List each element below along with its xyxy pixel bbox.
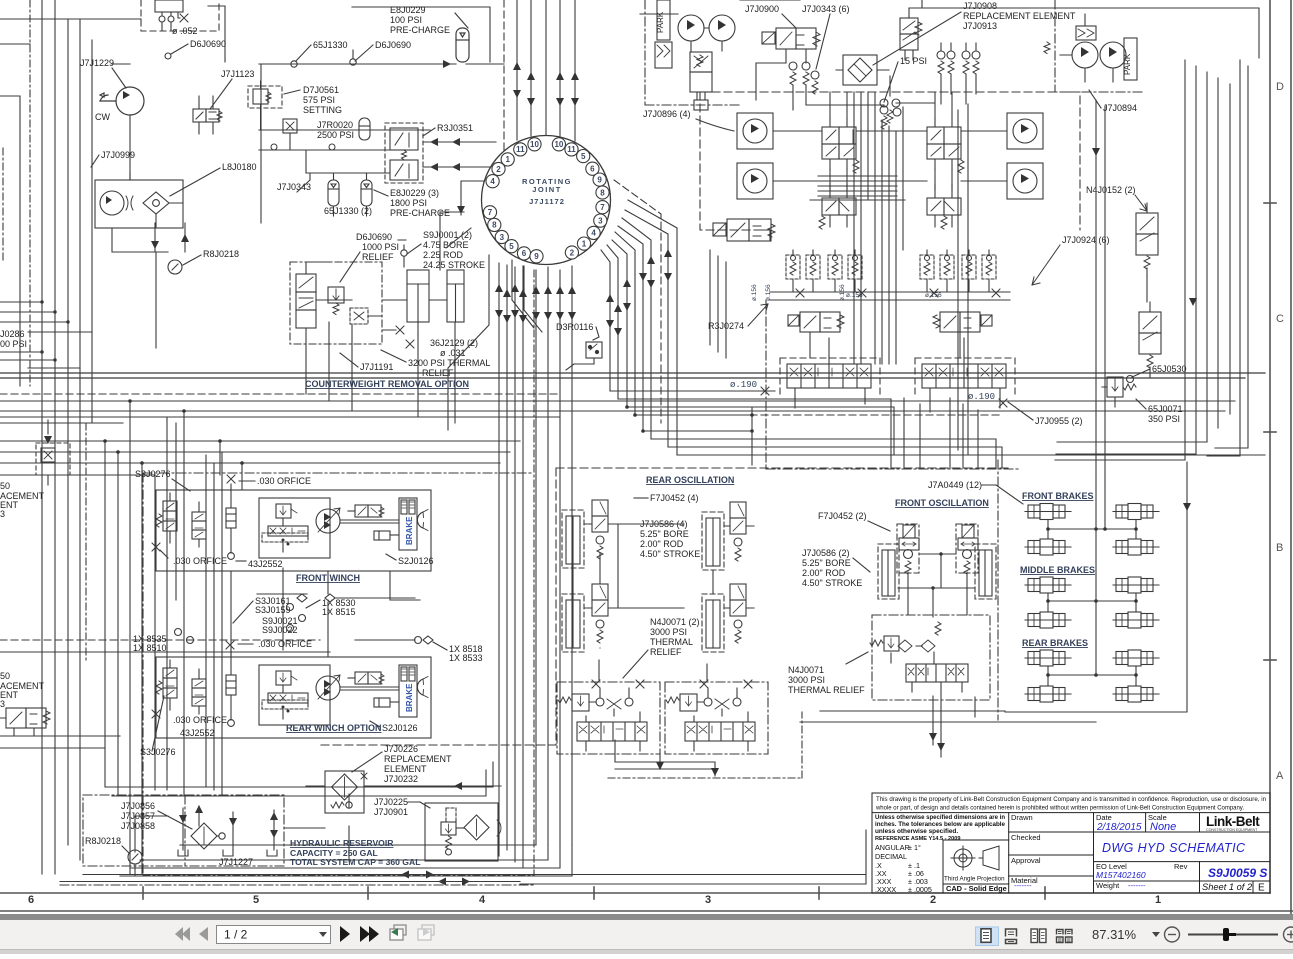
left edge solenoid valve low [0, 708, 50, 736]
svg-text:FRONT OSCILLATION: FRONT OSCILLATION [895, 498, 989, 508]
svg-text:S3J0159: S3J0159 [255, 605, 291, 615]
svg-text:1X 8515: 1X 8515 [322, 607, 356, 617]
front brake bus wire [1048, 520, 1136, 540]
svg-text:2.25 ROD: 2.25 ROD [423, 250, 464, 260]
wire bundle below joint going down [512, 260, 572, 845]
rotating joint U-J7J1172 [482, 136, 611, 265]
label diam .190 right [968, 392, 995, 402]
label J7A0449 (12) [928, 480, 982, 490]
svg-text:J7A0449 (12): J7A0449 (12) [928, 480, 982, 490]
65J0071 component [1102, 376, 1136, 408]
svg-text:CONSTRUCTION EQUIPMENT: CONSTRUCTION EQUIPMENT [1206, 828, 1258, 832]
sheet frame bottom border [0, 887, 1293, 911]
svg-text:10: 10 [530, 140, 539, 149]
svg-text:± .0005: ± .0005 [908, 885, 932, 894]
svg-text:M157402160: M157402160 [1096, 870, 1146, 880]
pdf viewer toolbar [0, 914, 1293, 954]
rear brake axle [1113, 686, 1159, 702]
svg-text:.030 ORFICE: .030 ORFICE [257, 476, 311, 486]
valve bank right [922, 356, 1006, 398]
svg-text:7: 7 [488, 208, 493, 217]
svg-text:6: 6 [590, 165, 595, 174]
valve bank left [787, 356, 871, 398]
fittings symbols [175, 594, 448, 650]
zone letters [1276, 81, 1284, 782]
wire bottom long runs to reservoir [120, 845, 572, 876]
svg-text:50: 50 [0, 481, 10, 491]
prev page button [199, 927, 208, 941]
label J7J0955 (2) [1035, 416, 1083, 426]
svg-text:E8J0229: E8J0229 [390, 5, 426, 15]
svg-text:2/18/2015: 2/18/2015 [1096, 822, 1142, 833]
svg-text:J7J0913: J7J0913 [963, 21, 997, 31]
svg-text:J7J0858: J7J0858 [121, 821, 155, 831]
svg-text:.030 ORFICE: .030 ORFICE [173, 715, 227, 725]
heading FRONT WINCH [296, 573, 360, 583]
svg-text:J7J0894: J7J0894 [1103, 103, 1137, 113]
valve .052 with orifice [155, 0, 188, 30]
label 65J1330 (2) [324, 206, 372, 216]
motor circles right pair [1007, 113, 1043, 149]
check pair right [937, 43, 980, 104]
svg-text:J7J0900: J7J0900 [745, 4, 779, 14]
Link-Belt logo [1201, 814, 1270, 832]
svg-text:CAD - Solid Edge: CAD - Solid Edge [946, 884, 1007, 893]
svg-text:D6J0690: D6J0690 [375, 40, 411, 50]
enclosure right dash-dot [1055, 0, 1145, 92]
svg-text:J7J1123: J7J1123 [221, 69, 254, 79]
svg-text:REFERENCE ASME Y14.5 - 2009: REFERENCE ASME Y14.5 - 2009 [875, 836, 961, 842]
middle brake axle [1025, 612, 1071, 628]
rear labels [173, 715, 227, 738]
svg-text:FRONT BRAKES: FRONT BRAKES [1022, 491, 1094, 501]
stepped horizontal rows left [0, 373, 1265, 378]
left bus bundle lower [105, 401, 242, 874]
svg-text:E: E [1258, 883, 1265, 894]
svg-text:J7J0225: J7J0225 [374, 797, 408, 807]
left edge valve with orifice [36, 420, 70, 485]
valve N4J0152 upper [1136, 203, 1158, 276]
wires front osc [908, 572, 975, 757]
left solenoid valve [713, 219, 775, 241]
svg-text:-------: ------- [1128, 881, 1146, 890]
label N4J0071 front [788, 665, 865, 695]
strainer filter [191, 823, 225, 849]
middle brake axle [1025, 577, 1071, 593]
counterweight cylinders [382, 270, 464, 348]
svg-text:350 PSI: 350 PSI [1148, 414, 1180, 424]
rear brake bus wire [1048, 666, 1136, 686]
winch inner manifold box [259, 665, 330, 725]
svg-text:43J2552: 43J2552 [180, 728, 215, 738]
reservoir dashed box [83, 795, 284, 866]
svg-text:ANGULAR: ANGULAR [875, 843, 910, 852]
svg-text:4: 4 [490, 177, 495, 186]
svg-text:36J2129 (2): 36J2129 (2) [430, 338, 478, 348]
svg-text:3: 3 [500, 233, 505, 242]
label .052 [172, 26, 198, 36]
left edge label J0286 [0, 329, 27, 349]
svg-text:D6J0690: D6J0690 [356, 232, 392, 242]
svg-text:1800 PSI: 1800 PSI [390, 198, 427, 208]
svg-text:10: 10 [554, 140, 563, 149]
svg-text:None: None [1150, 821, 1176, 833]
wires center cluster [773, 131, 1007, 198]
D7J0561 valve [248, 86, 282, 108]
svg-text:5: 5 [509, 242, 514, 251]
svg-text:unless otherwise specified.: unless otherwise specified. [875, 828, 958, 835]
svg-text:00 PSI: 00 PSI [0, 339, 27, 349]
winch metering cyl [226, 651, 236, 726]
left bus extra verticals [167, 417, 176, 790]
svg-text:ø .052: ø .052 [172, 26, 198, 36]
solenoid valve J7J0900 [762, 28, 820, 63]
svg-text:ø.156: ø.156 [751, 284, 758, 301]
svg-text:DECIMAL: DECIMAL [875, 852, 907, 861]
central valve stack left [822, 119, 859, 173]
wire top right bus [740, 0, 1259, 58]
winch rotation arrow [417, 510, 428, 531]
svg-text:FRONT WINCH: FRONT WINCH [296, 573, 360, 583]
svg-text:N4J0071: N4J0071 [788, 665, 824, 675]
manifold horizontal rows [810, 176, 905, 200]
svg-text:J7J0908: J7J0908 [963, 1, 997, 11]
labels J7J0856/57/58 [121, 801, 155, 831]
rear osc center cyl A [702, 502, 754, 570]
label 1000 PSI RELIEF [362, 242, 399, 262]
svg-text:Unless otherwise specified dim: Unless otherwise specified dimensions ar… [875, 814, 1005, 821]
svg-text:5.25" BORE: 5.25" BORE [802, 558, 851, 568]
central valve stack right [927, 119, 964, 173]
svg-text:87.31%: 87.31% [1092, 927, 1137, 942]
svg-text:2: 2 [496, 165, 501, 174]
svg-text:REAR OSCILLATION: REAR OSCILLATION [646, 475, 734, 485]
tanks [178, 850, 188, 856]
svg-text:6: 6 [28, 894, 34, 906]
svg-text:D: D [1276, 81, 1284, 93]
winch outer box [156, 657, 431, 738]
svg-text:5: 5 [253, 894, 259, 906]
svg-text:575 PSI: 575 PSI [303, 95, 335, 105]
wire from pump assembly [112, 172, 185, 252]
svg-text:RELIEF: RELIEF [650, 647, 682, 657]
heading REAR OSCILLATION [646, 475, 734, 485]
svg-text:4.50" STROKE: 4.50" STROKE [640, 549, 700, 559]
wire manifold [259, 130, 430, 173]
front osc valves [897, 524, 978, 574]
title block [872, 793, 1270, 894]
accumulator E8J0229 [456, 28, 469, 62]
wire dashed riser [503, 0, 505, 155]
label J7J0586 (4) specs [640, 519, 700, 559]
svg-text:3: 3 [705, 894, 711, 906]
label J7J0586 (2) specs [802, 548, 862, 588]
svg-text:THERMAL RELIEF: THERMAL RELIEF [788, 685, 865, 695]
wire joint left pins to west [440, 181, 486, 270]
svg-text:F7J0452 (2): F7J0452 (2) [818, 511, 867, 521]
joint pin circles [483, 138, 609, 263]
label J7J0226 group [384, 744, 452, 784]
motor circles left pair [737, 113, 773, 149]
svg-text:BRAKE: BRAKE [405, 683, 414, 712]
wire fan from joint right side descending [601, 200, 677, 455]
label R3J0274 [708, 321, 744, 331]
svg-text:24.25 STROKE: 24.25 STROKE [423, 260, 485, 270]
svg-text:R3J0351: R3J0351 [437, 123, 473, 133]
winch inner manifold box [259, 498, 330, 558]
fan turning right eastward [610, 391, 1265, 468]
park pump group right [1044, 14, 1137, 82]
svg-text:COUNTERWEIGHT REMOVAL OPTION: COUNTERWEIGHT REMOVAL OPTION [305, 379, 469, 389]
svg-text:J7J0586 (2): J7J0586 (2) [802, 548, 850, 558]
left edge ladder rows [0, 302, 92, 368]
label 65J0530 [1152, 364, 1187, 374]
filter J7J0908 [836, 55, 889, 85]
svg-text:R8J0218: R8J0218 [85, 836, 121, 846]
svg-text:2.00" ROD: 2.00" ROD [802, 568, 846, 578]
winch right valve [348, 505, 384, 517]
brake main vertical [1096, 480, 1105, 675]
svg-text:R8J0218: R8J0218 [203, 249, 239, 259]
middle brake bus wire [1048, 593, 1136, 612]
svg-text:3000 PSI: 3000 PSI [788, 675, 825, 685]
solenoid valves row3 left [788, 312, 844, 332]
svg-text:D7J0561: D7J0561 [303, 85, 339, 95]
label 15 PSI [900, 56, 927, 66]
label L8J0180 [222, 162, 257, 172]
wire verticals counterweight to rows [306, 322, 455, 423]
svg-text:DWG HYD SCHEMATIC: DWG HYD SCHEMATIC [1102, 841, 1246, 855]
left vertical bus bundle upper [42, 0, 92, 874]
flow arrows in reservoir [179, 815, 187, 823]
accumulator small [359, 118, 370, 140]
heading FRONT OSCILLATION [895, 498, 989, 508]
rear osc center cyl B [702, 584, 754, 652]
svg-text:Drawn: Drawn [1011, 813, 1033, 822]
svg-text:HYDRAULIC RESERVOIR: HYDRAULIC RESERVOIR [290, 838, 394, 848]
dashed option box top [141, 0, 219, 31]
svg-text:9: 9 [534, 252, 539, 261]
svg-text:J7J1172: J7J1172 [529, 197, 565, 206]
svg-text:1: 1 [1155, 894, 1161, 906]
rear osc cyl unit B [562, 584, 618, 652]
heading MIDDLE BRAKES [1020, 565, 1095, 575]
label J7J0999 [101, 150, 135, 160]
heading REAR WINCH OPTION [286, 723, 382, 733]
svg-text:J0286: J0286 [0, 329, 25, 339]
label 36J2129 [430, 338, 478, 358]
valve below park [690, 52, 712, 110]
front brake axle [1025, 539, 1071, 555]
svg-text:1: 1 [582, 239, 587, 248]
svg-text:Approval: Approval [1011, 856, 1041, 865]
label J7J0924 (6) [1062, 235, 1110, 245]
svg-text:8: 8 [492, 221, 497, 230]
svg-text:S2J0126: S2J0126 [382, 723, 418, 733]
svg-text:REAR BRAKES: REAR BRAKES [1022, 638, 1088, 648]
winch outer box [156, 490, 431, 571]
svg-text:4: 4 [479, 894, 486, 906]
counterweight valve cluster [290, 262, 382, 344]
front osc manifold [870, 615, 990, 700]
wires bank to rows [795, 332, 1000, 412]
svg-text:100 PSI: 100 PSI [390, 15, 422, 25]
label D6J0690 [190, 39, 226, 49]
svg-text:1000 PSI: 1000 PSI [362, 242, 399, 252]
winch cyl small [374, 531, 399, 540]
middle brake axle [1113, 577, 1159, 593]
rear brake axle [1025, 686, 1071, 702]
label J7J0896 (4) [643, 109, 691, 119]
accumulators 1800psi [328, 180, 339, 206]
svg-text:3: 3 [0, 509, 5, 519]
svg-text:1X 8510: 1X 8510 [133, 643, 167, 653]
winch drive shaft [340, 520, 399, 523]
svg-text:J7J0856: J7J0856 [121, 801, 155, 811]
svg-text:ELEMENT: ELEMENT [384, 764, 427, 774]
svg-text:3: 3 [0, 699, 5, 709]
label E8J0229 100 PSI PRE-CHARGE [390, 5, 450, 35]
svg-text:4.50" STROKE: 4.50" STROKE [802, 578, 862, 588]
heading REAR BRAKES [1022, 638, 1088, 648]
svg-text:J7J0955 (2): J7J0955 (2) [1035, 416, 1083, 426]
front brake axle [1113, 539, 1159, 555]
pump J7J1229 [100, 87, 144, 115]
svg-text:11: 11 [516, 145, 525, 154]
wire bundle above rotating joint [517, 0, 575, 141]
label S3J0276 lower [140, 747, 176, 757]
svg-text:J7J1191: J7J1191 [360, 362, 393, 372]
svg-text:8: 8 [600, 188, 605, 197]
svg-text:L8J0180: L8J0180 [222, 162, 257, 172]
small valve top right [900, 8, 922, 60]
long dashed rows mid-left [0, 639, 320, 641]
svg-text:.XXXX: .XXXX [875, 885, 896, 894]
svg-text:65J0071: 65J0071 [1148, 404, 1183, 414]
svg-text:S9J0059 S: S9J0059 S [1208, 866, 1267, 880]
label D6J0690 [375, 40, 411, 50]
sheet frame right border [1264, 0, 1291, 914]
svg-text:J7J0999: J7J0999 [101, 150, 135, 160]
wire rows bottom-left [0, 736, 120, 748]
left cut labels block1 [0, 481, 45, 519]
svg-text:Date: Date [1096, 813, 1112, 822]
svg-text:E8J0229 (3): E8J0229 (3) [390, 188, 439, 198]
wires reservoir area [135, 794, 349, 861]
svg-text:7: 7 [600, 203, 605, 212]
label E8J0229 (3) 1800 PSI PRE-CHARGE [390, 188, 450, 218]
svg-text:Link-Belt: Link-Belt [1206, 814, 1260, 829]
svg-text:S3J0276: S3J0276 [140, 747, 176, 757]
svg-text:S2J0126: S2J0126 [398, 556, 434, 566]
winch region dash boundary [143, 473, 534, 875]
svg-text:J7J0343 (6): J7J0343 (6) [802, 4, 850, 14]
inter-winch fittings [133, 596, 483, 663]
rear osc cyl unit A [562, 500, 618, 568]
small relief top middle [880, 106, 901, 129]
left mid verticals to reservoir [206, 452, 222, 796]
svg-text:MIDDLE BRAKES: MIDDLE BRAKES [1020, 565, 1095, 575]
third angle projection symbol [951, 846, 999, 870]
wires vertical joins [760, 230, 770, 241]
wire verticals down from fan to oscillation region [627, 407, 752, 465]
heading FRONT BRAKES [1022, 491, 1094, 501]
flow arrows up bundle [513, 62, 579, 106]
filter J7J0226 [306, 771, 501, 813]
svg-text:2: 2 [930, 894, 936, 906]
page view icons right [976, 927, 999, 946]
svg-text:4: 4 [591, 229, 596, 238]
label 3200 PSI THERMAL RELIEF [408, 358, 490, 378]
winch rotation arrow [417, 677, 428, 698]
svg-text:D3R0116: D3R0116 [556, 322, 593, 332]
svg-text:SETTING: SETTING [303, 105, 342, 115]
junction dots [103, 399, 244, 465]
front osc cylinders [878, 544, 996, 599]
next view icon (disabled) [418, 925, 434, 940]
arrows on fan [606, 249, 672, 336]
label J7J0343 (6) [802, 4, 850, 14]
svg-text:5.25" BORE: 5.25" BORE [640, 529, 689, 539]
svg-text:THERMAL: THERMAL [650, 637, 693, 647]
prev view icon [390, 925, 406, 940]
park pump group left [640, 0, 735, 68]
label S3J0276 [135, 469, 171, 479]
label F7J0452 (4) [650, 493, 699, 503]
label J7J1191 [360, 362, 393, 372]
winch valve 2 [192, 669, 206, 714]
rear osc manifold left [557, 680, 660, 754]
label N4J0152 (2) [1086, 185, 1136, 195]
svg-text:REPLACEMENT: REPLACEMENT [384, 754, 452, 764]
front brake axle [1025, 504, 1071, 520]
svg-text:N4J0152 (2): N4J0152 (2) [1086, 185, 1136, 195]
svg-text:S3J0276: S3J0276 [135, 469, 171, 479]
svg-text:-------: ------- [1014, 881, 1032, 890]
label D6J0690 + S9J0001 [356, 232, 392, 242]
svg-text:CW: CW [95, 112, 110, 122]
osc to bus arrows [711, 768, 719, 776]
dashed box around banks [780, 358, 880, 395]
svg-text:65J1330: 65J1330 [313, 40, 348, 50]
central valve stack right lower [927, 184, 961, 229]
winch brake stack [399, 498, 417, 550]
label F7J0452 (2) [818, 511, 867, 521]
label diam .190 left [730, 380, 757, 390]
svg-text:D6J0690: D6J0690 [190, 39, 226, 49]
labels J7J0225 J7J0901 [374, 797, 408, 817]
wire pump down [129, 115, 131, 180]
central valve stack left lower [819, 184, 856, 229]
gauge R8J0218 [203, 249, 239, 259]
label J7J1227 [219, 857, 253, 867]
svg-text:PARK: PARK [1123, 53, 1132, 75]
counterweight heading [305, 379, 469, 389]
svg-text:.030 ORFICE: .030 ORFICE [173, 556, 227, 566]
winch brake stack [399, 665, 417, 717]
svg-text:TOTAL SYSTEM CAP = 360 GAL: TOTAL SYSTEM CAP = 360 GAL [290, 857, 420, 867]
svg-text:J7J0232: J7J0232 [384, 774, 418, 784]
svg-text:JOINT: JOINT [532, 185, 562, 194]
svg-text:J7J1227: J7J1227 [219, 857, 253, 867]
svg-text:2: 2 [570, 248, 575, 257]
wires rear osc [573, 524, 713, 680]
R3J0351 valves [385, 123, 423, 183]
svg-text:J7J0896 (4): J7J0896 (4) [643, 109, 691, 119]
winch interconnect verticals [231, 568, 420, 657]
svg-text:2.00" ROD: 2.00" ROD [640, 539, 684, 549]
rear brake axle [1113, 650, 1159, 666]
